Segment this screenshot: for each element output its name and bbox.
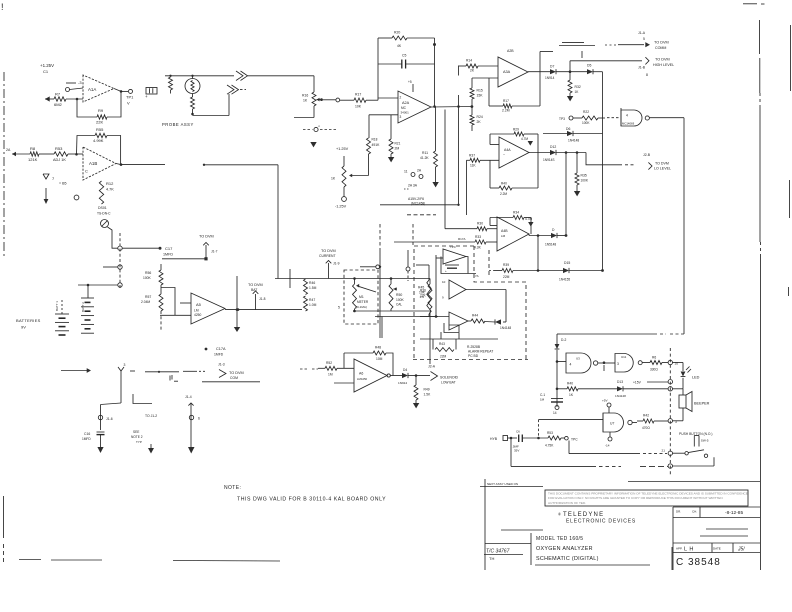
svg-text:R40: R40 bbox=[567, 381, 573, 385]
title block tc number bbox=[484, 549, 523, 562]
wire A1B out east bbox=[121, 164, 278, 166]
svg-text:J1-9: J1-9 bbox=[333, 262, 340, 266]
wire to A1B minus bbox=[39, 153, 83, 156]
svg-text:C6: C6 bbox=[516, 430, 520, 434]
alarm comp1 labels bbox=[450, 237, 466, 249]
svg-text:SEE: SEE bbox=[133, 430, 139, 434]
svg-text:TO DVM: TO DVM bbox=[655, 162, 669, 166]
svg-text:100K: 100K bbox=[582, 121, 590, 125]
trimpot R50 bbox=[389, 277, 405, 311]
diode D14 bbox=[545, 228, 567, 246]
svg-text:R49: R49 bbox=[424, 388, 430, 392]
svg-text:R21: R21 bbox=[395, 142, 401, 146]
A2A pin labels bbox=[400, 96, 402, 120]
svg-text:1.0M: 1.0M bbox=[309, 303, 317, 307]
arrow mark 2 bbox=[528, 222, 533, 227]
svg-text:R24: R24 bbox=[477, 115, 483, 119]
svg-text:100K: 100K bbox=[581, 178, 589, 182]
title block top lines bbox=[480, 482, 760, 487]
sheet top-left mark bbox=[1, 2, 4, 12]
resistor R11 bbox=[420, 107, 439, 188]
svg-text:D13: D13 bbox=[617, 380, 623, 384]
svg-text:C 38548: C 38548 bbox=[676, 557, 721, 568]
dvm arrow int bbox=[162, 235, 218, 261]
pin circle row bbox=[303, 124, 336, 132]
resistor R12 bbox=[99, 181, 114, 204]
label C17A bbox=[205, 347, 226, 357]
svg-text:L H: L H bbox=[684, 547, 694, 553]
svg-text:2K: 2K bbox=[477, 120, 482, 124]
alarm diode bbox=[495, 319, 511, 330]
wire fork down bbox=[101, 371, 122, 405]
svg-text:R20: R20 bbox=[394, 31, 400, 35]
lamp DS1 bbox=[101, 220, 109, 228]
A6 input bbox=[300, 361, 354, 377]
svg-text:10M: 10M bbox=[376, 357, 383, 361]
svg-text:C17A: C17A bbox=[216, 347, 226, 351]
board dash x413 bbox=[412, 224, 414, 245]
svg-text:R44: R44 bbox=[472, 314, 478, 318]
resistor R18 bbox=[367, 138, 381, 155]
label J1-3 bbox=[218, 363, 225, 367]
resistor R21 2M bbox=[388, 115, 401, 163]
svg-text:M1: M1 bbox=[359, 295, 364, 299]
svg-text:T/C 34767: T/C 34767 bbox=[486, 549, 510, 555]
svg-text:+5: +5 bbox=[408, 80, 412, 84]
wire J1-6 column bbox=[100, 405, 102, 431]
resistor R57 bbox=[141, 294, 163, 311]
svg-text:D6: D6 bbox=[566, 127, 570, 131]
svg-text:A5: A5 bbox=[196, 302, 202, 307]
node A1A out bbox=[114, 89, 128, 93]
wire A1A minus bbox=[66, 82, 76, 84]
svg-text:R37: R37 bbox=[469, 153, 475, 157]
svg-text:DS01: DS01 bbox=[98, 206, 107, 210]
connector chevron 2 bbox=[227, 85, 246, 94]
wire y372 bbox=[130, 371, 179, 380]
svg-text:R22: R22 bbox=[583, 110, 589, 114]
gnd column A5 bbox=[234, 276, 240, 332]
svg-text:CAL: CAL bbox=[396, 303, 402, 307]
svg-text:7A: 7A bbox=[475, 274, 479, 278]
A2B feedback bbox=[489, 52, 553, 113]
corner wire bbox=[133, 394, 152, 404]
sheet bottom border bbox=[19, 560, 280, 562]
svg-text:R47: R47 bbox=[309, 298, 315, 302]
wire y453 bbox=[569, 441, 667, 454]
svg-text:MC14069: MC14069 bbox=[622, 122, 635, 126]
A4B out bbox=[529, 234, 551, 237]
svg-text:LOW BAT: LOW BAT bbox=[441, 381, 456, 385]
svg-text:R55: R55 bbox=[96, 127, 104, 132]
bus x684 bbox=[683, 118, 685, 334]
svg-text:4.7K: 4.7K bbox=[106, 188, 114, 192]
svg-text:R-2528B: R-2528B bbox=[467, 345, 481, 349]
diode D5 bbox=[587, 64, 593, 75]
resistor R32 bbox=[567, 72, 581, 102]
svg-text:TS-DN-C: TS-DN-C bbox=[97, 212, 111, 216]
resistor R9 bbox=[96, 108, 107, 125]
A2A out wire bbox=[431, 105, 473, 108]
wire R9 to output bbox=[107, 92, 121, 117]
connector circle 3 bbox=[78, 283, 122, 287]
alarm opamp 3 bbox=[449, 312, 468, 330]
svg-text:R12: R12 bbox=[106, 181, 114, 186]
resistor R6 bbox=[642, 356, 668, 372]
cross stub bbox=[289, 269, 291, 288]
svg-text:1MFD: 1MFD bbox=[82, 437, 91, 441]
svg-text:SOLENOID: SOLENOID bbox=[440, 376, 459, 380]
A2A plus wire bbox=[369, 115, 398, 138]
svg-text:2: 2 bbox=[400, 96, 402, 100]
dash y42 bbox=[562, 42, 584, 44]
board dash x380 bbox=[379, 224, 381, 338]
alarm minus wire bbox=[420, 315, 449, 318]
svg-text:1N914S: 1N914S bbox=[543, 158, 555, 162]
wire up x378 bbox=[378, 38, 398, 100]
connector circle 1 bbox=[118, 246, 159, 250]
battery BT1 bbox=[55, 314, 69, 335]
resistor R20 bbox=[378, 31, 435, 49]
svg-text:J1-3: J1-3 bbox=[218, 363, 225, 367]
svg-text:1K: 1K bbox=[331, 177, 336, 181]
svg-text:4250: 4250 bbox=[194, 313, 202, 317]
svg-text:R48: R48 bbox=[375, 346, 381, 350]
svg-text:APP.: APP. bbox=[676, 547, 683, 551]
wire down x278 bbox=[277, 165, 279, 279]
title block right column grid bbox=[673, 507, 760, 570]
alarm pcb label bbox=[467, 345, 493, 358]
A4A plus input bbox=[467, 153, 500, 167]
svg-text:41.2K: 41.2K bbox=[420, 156, 429, 160]
svg-text:1.5M: 1.5M bbox=[309, 286, 317, 290]
title block row dividers bbox=[700, 507, 733, 553]
svg-text:BATT 2: BATT 2 bbox=[81, 302, 85, 312]
connector circle 6 bbox=[189, 415, 200, 420]
svg-text:1N5148: 1N5148 bbox=[545, 242, 556, 246]
svg-text:AUTHORIZATION OF TED.: AUTHORIZATION OF TED. bbox=[548, 501, 586, 505]
svg-text:1N914: 1N914 bbox=[545, 76, 555, 80]
svg-text:C17: C17 bbox=[165, 246, 173, 251]
svg-text:TPC: TPC bbox=[571, 438, 578, 442]
meter element bbox=[353, 284, 377, 309]
svg-text:A4A: A4A bbox=[504, 148, 511, 152]
connector box J3 bbox=[146, 88, 157, 95]
svg-text:TO DVM: TO DVM bbox=[321, 249, 336, 253]
svg-text:!: ! bbox=[1, 2, 4, 12]
A4A out bbox=[529, 152, 550, 154]
svg-text:V: V bbox=[127, 101, 130, 106]
svg-text:R17A: R17A bbox=[458, 237, 466, 241]
wire to D15 bbox=[538, 270, 563, 272]
down arrow bbox=[44, 188, 49, 204]
pin column dashed bbox=[669, 348, 671, 476]
J2A arrow bbox=[428, 365, 459, 385]
svg-text:C5: C5 bbox=[402, 54, 406, 58]
wire y371 dashes bbox=[183, 370, 206, 372]
wire feedback A1B bbox=[77, 136, 96, 155]
tp circle TPC bbox=[565, 436, 579, 441]
led lower wire bbox=[682, 378, 684, 389]
svg-text:-1.25V: -1.25V bbox=[335, 205, 347, 209]
wire R55 to out bbox=[107, 136, 121, 165]
svg-text:R30: R30 bbox=[477, 222, 483, 226]
svg-text:FOR EVALUATION ONLY. NO RIGHTS: FOR EVALUATION ONLY. NO RIGHTS ARE GRANT… bbox=[548, 496, 723, 500]
svg-text:2.2M: 2.2M bbox=[502, 109, 510, 113]
svg-text:J1-8: J1-8 bbox=[259, 297, 266, 301]
wire +15v pin17 bbox=[633, 380, 668, 384]
A5 out wire bbox=[225, 308, 302, 311]
svg-text:J1-4: J1-4 bbox=[185, 395, 192, 399]
svg-text:R6: R6 bbox=[652, 356, 656, 360]
trimpot R16 bbox=[302, 76, 316, 106]
svg-text:PC BD: PC BD bbox=[468, 354, 479, 358]
probe top wire bbox=[165, 75, 234, 79]
A5 plus wire bbox=[180, 302, 191, 304]
svg-text:COM: COM bbox=[230, 376, 238, 380]
svg-text:J1-A: J1-A bbox=[638, 31, 646, 35]
svg-text:ALARM REPEAT: ALARM REPEAT bbox=[468, 350, 493, 354]
diode D6 bbox=[543, 127, 603, 142]
resistor R35 bbox=[574, 153, 589, 197]
svg-text:4K: 4K bbox=[397, 44, 402, 48]
svg-text:CH.: CH. bbox=[692, 510, 697, 514]
svg-text:LM: LM bbox=[501, 234, 506, 238]
resistor R8 bbox=[28, 146, 39, 162]
probe lower resistor bbox=[191, 94, 195, 116]
wire y316 bbox=[375, 316, 438, 318]
pin circle 16 bbox=[668, 360, 678, 365]
dvm arrow current bbox=[319, 249, 340, 279]
resistor R15 bbox=[470, 88, 483, 108]
R16 wiper bbox=[316, 98, 323, 102]
svg-text:21: 21 bbox=[662, 449, 666, 453]
resistor R55 bbox=[93, 127, 107, 143]
svg-text:R36: R36 bbox=[420, 289, 426, 293]
title block drawing number box bbox=[672, 547, 721, 570]
svg-text:METER: METER bbox=[357, 300, 369, 304]
svg-text:8: 8 bbox=[646, 73, 648, 77]
op-amp A6 bbox=[354, 359, 387, 392]
wire to bus602 bbox=[593, 71, 603, 73]
svg-text:R9: R9 bbox=[98, 108, 104, 113]
svg-text:+: + bbox=[445, 269, 447, 273]
pin circle 17 bbox=[668, 380, 672, 384]
svg-text:3: 3 bbox=[617, 362, 619, 366]
resistor R56 bbox=[143, 270, 163, 285]
svg-text:(MC1458): (MC1458) bbox=[411, 201, 425, 205]
A4B bottom input bbox=[394, 235, 497, 250]
svg-text:3: 3 bbox=[400, 115, 402, 119]
svg-text:BEEPER: BEEPER bbox=[694, 402, 710, 406]
svg-text:NOTE 2: NOTE 2 bbox=[131, 435, 143, 439]
op-amp A2B bbox=[498, 49, 528, 87]
svg-text:R34: R34 bbox=[513, 211, 519, 215]
pin 3 label bbox=[78, 80, 82, 85]
svg-text:+5V: +5V bbox=[602, 399, 609, 403]
svg-text:A3A: A3A bbox=[503, 70, 511, 74]
svg-text:1N4148: 1N4148 bbox=[500, 326, 511, 330]
bus x445 bbox=[444, 110, 446, 229]
title block date bbox=[676, 510, 743, 517]
tp3 input bbox=[559, 116, 582, 121]
connector 11 2A bbox=[404, 169, 423, 179]
connector circle 2 bbox=[103, 265, 122, 269]
meter dashed box bbox=[344, 270, 378, 324]
A2B out wire bbox=[528, 71, 550, 73]
svg-text:R7: R7 bbox=[55, 92, 61, 97]
label J1-4 bbox=[185, 395, 192, 399]
svg-text:D12: D12 bbox=[550, 145, 556, 149]
svg-text:121K: 121K bbox=[28, 157, 38, 162]
svg-text:100K: 100K bbox=[396, 298, 405, 302]
alarm buffer bbox=[442, 280, 466, 300]
label +1.25V bbox=[40, 63, 54, 74]
probe circle bbox=[185, 79, 200, 94]
fork node bbox=[118, 363, 126, 371]
svg-text:1K: 1K bbox=[303, 98, 308, 102]
tp2 circle bbox=[336, 98, 340, 102]
svg-text:5: 5 bbox=[338, 306, 340, 310]
pin circle x408 bbox=[406, 250, 410, 281]
wire x557 down bbox=[557, 334, 560, 344]
svg-text:SCHEMATIC (DIGITAL): SCHEMATIC (DIGITAL) bbox=[536, 556, 599, 562]
svg-text:1N4148: 1N4148 bbox=[615, 394, 626, 398]
capacitor C1 bbox=[540, 393, 563, 405]
svg-text:R11: R11 bbox=[422, 151, 428, 155]
svg-text:TYP: TYP bbox=[136, 440, 142, 444]
capacitor C6 bbox=[512, 430, 548, 453]
gnd sym 7 bbox=[43, 174, 67, 186]
resistor R7 bbox=[54, 92, 66, 108]
svg-text:TO DVM: TO DVM bbox=[248, 283, 263, 287]
power stub bbox=[408, 80, 413, 92]
svg-text:D4: D4 bbox=[403, 368, 407, 372]
svg-text:PROBE ASSY: PROBE ASSY bbox=[162, 122, 194, 127]
resistor R42 bbox=[632, 414, 668, 430]
wire x510 down bbox=[510, 438, 512, 466]
svg-text:MC: MC bbox=[401, 106, 407, 110]
alarm R43 loop bbox=[433, 339, 456, 359]
switch right leg bbox=[713, 457, 715, 466]
svg-text:LM4250: LM4250 bbox=[357, 377, 368, 381]
label TO J1-2 bbox=[145, 414, 157, 418]
wire y311 bbox=[353, 310, 429, 312]
svg-text:DATE: DATE bbox=[713, 547, 721, 551]
svg-text:11: 11 bbox=[404, 170, 408, 174]
stub x582 bbox=[581, 51, 583, 58]
svg-text:22M: 22M bbox=[440, 355, 447, 359]
svg-text:BAT: BAT bbox=[251, 288, 257, 292]
title block notice box bbox=[545, 490, 748, 506]
op-amp A4A bbox=[499, 137, 529, 168]
svg-text:R42: R42 bbox=[643, 414, 649, 418]
svg-text:DR.: DR. bbox=[676, 510, 681, 514]
svg-text:U7: U7 bbox=[610, 422, 614, 426]
wire x382 down bbox=[381, 317, 383, 339]
beeper bbox=[679, 389, 710, 421]
svg-text:MODEL TED 160/5: MODEL TED 160/5 bbox=[536, 536, 583, 542]
gnd arrow 1 bbox=[97, 435, 103, 453]
dvm com arrow bbox=[219, 370, 244, 381]
svg-text:TO DVM: TO DVM bbox=[229, 371, 244, 375]
svg-text:R57: R57 bbox=[145, 295, 151, 299]
resistor R17 bbox=[340, 93, 378, 109]
A6 plus wire bbox=[334, 382, 354, 384]
R56 tap bbox=[161, 264, 175, 315]
wire to D5 bbox=[556, 70, 587, 73]
svg-text:THIS DOCUMENT CONTAINS PROPRIE: THIS DOCUMENT CONTAINS PROPRIETARY INFOR… bbox=[548, 492, 748, 496]
svg-text:HIGH LEVEL: HIGH LEVEL bbox=[653, 63, 674, 67]
svg-text:330Ω: 330Ω bbox=[650, 368, 658, 372]
svg-text:5: 5 bbox=[643, 37, 645, 41]
diode D12 bbox=[543, 145, 556, 162]
bus x466 bbox=[466, 160, 468, 215]
svg-text:NOTE:: NOTE: bbox=[224, 485, 241, 491]
svg-text:-8-12-85: -8-12-85 bbox=[725, 510, 743, 516]
svg-text:A1B: A1B bbox=[89, 161, 97, 166]
capacitor C5 bbox=[378, 54, 435, 69]
alarm comp1 loop bbox=[441, 257, 476, 274]
A2B plus input bbox=[472, 78, 498, 88]
wire x430 down bbox=[429, 311, 431, 364]
svg-text:R52: R52 bbox=[326, 361, 332, 365]
svg-text:4: 4 bbox=[626, 114, 628, 118]
dash y215 bbox=[407, 214, 436, 216]
svg-text:R35: R35 bbox=[581, 174, 587, 178]
dash x538 bbox=[538, 420, 540, 438]
wire R18 to pot bbox=[349, 154, 369, 177]
svg-text:C16: C16 bbox=[84, 432, 90, 436]
diode D2 bbox=[555, 338, 567, 349]
svg-text:TELEDYNE: TELEDYNE bbox=[563, 512, 604, 518]
input arrow bbox=[45, 96, 54, 101]
diode D4 bbox=[398, 368, 408, 385]
probe assy label bbox=[162, 122, 194, 127]
tick bbox=[169, 376, 171, 381]
pin circle 6 bbox=[668, 464, 714, 468]
svg-text:R16: R16 bbox=[302, 94, 308, 98]
pot +-1.25V bbox=[331, 147, 349, 209]
op-amp A1B bbox=[83, 147, 116, 180]
svg-text:J5/: J5/ bbox=[737, 547, 745, 553]
svg-text:A2B: A2B bbox=[507, 49, 514, 53]
svg-text:U3: U3 bbox=[576, 357, 580, 361]
svg-text:TO DVM: TO DVM bbox=[654, 41, 669, 45]
wire to J2A bbox=[408, 374, 430, 377]
resistor R53b bbox=[545, 431, 565, 448]
connector column dashed bbox=[119, 233, 121, 288]
resistor R53 bbox=[53, 146, 68, 162]
svg-text:R53: R53 bbox=[547, 431, 553, 435]
svg-text:15K: 15K bbox=[477, 93, 484, 97]
svg-text:10: 10 bbox=[442, 280, 446, 284]
svg-text:TO J1-2: TO J1-2 bbox=[145, 414, 157, 418]
A4B top input bbox=[445, 222, 497, 231]
dash below R57 bbox=[160, 311, 162, 330]
svg-text:R18: R18 bbox=[372, 138, 378, 142]
A4A lower feedback bbox=[490, 153, 538, 196]
inverter U4 bbox=[621, 108, 649, 126]
svg-text:2A: 2A bbox=[6, 148, 11, 152]
meter wire bottom bbox=[353, 309, 356, 312]
svg-text:LED: LED bbox=[692, 376, 700, 380]
title block approvals bbox=[676, 547, 745, 553]
push button bbox=[679, 432, 712, 458]
tp circle 2 bbox=[74, 195, 79, 200]
op-amp A1A bbox=[83, 75, 114, 102]
svg-text:C-1: C-1 bbox=[540, 393, 545, 397]
